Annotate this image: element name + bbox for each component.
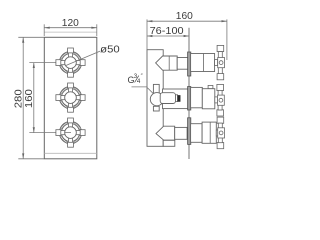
dim 160 ext line bottom (to handle 3)	[29, 132, 56, 134]
dim 76-100	[147, 35, 189, 37]
wall/plate edge line	[188, 28, 190, 159]
short ext segment inside handle 3	[65, 132, 71, 134]
svg-text:76-100: 76-100	[150, 26, 184, 37]
row2 cartridge	[160, 93, 175, 104]
plate bar row2	[188, 87, 191, 111]
row2 knob body	[202, 89, 215, 109]
handle H2	[56, 83, 85, 112]
row2 stem bottom	[153, 106, 159, 111]
row2 side handle	[217, 84, 224, 116]
row3 side handle	[217, 117, 224, 149]
row2 stem top	[153, 84, 159, 93]
row1 side handle	[217, 45, 224, 79]
svg-text:280: 280	[14, 89, 25, 108]
svg-text:″: ″	[141, 73, 143, 79]
bracket body	[147, 50, 163, 147]
row3 connector	[216, 130, 218, 136]
row1 cartridge pentagon	[156, 56, 178, 70]
bracket foot	[163, 140, 175, 146]
leader o50	[65, 51, 100, 66]
row3 cap	[191, 124, 203, 143]
faint body edge bottom	[44, 152, 97, 154]
row1 cap	[191, 54, 215, 72]
svg-text:ø50: ø50	[100, 44, 120, 56]
wall plate	[44, 37, 97, 159]
row2 connector	[215, 97, 218, 103]
faint body edge top	[44, 31, 97, 33]
row2 step	[176, 95, 178, 102]
dim 280	[18, 37, 44, 159]
dim 160 ext line top (to handle 1)	[29, 62, 56, 64]
row2 housing	[163, 89, 189, 109]
svg-text:160: 160	[176, 11, 193, 22]
plate bar row1	[188, 52, 191, 76]
row2 cap	[191, 87, 203, 107]
handle H3	[56, 118, 85, 147]
plate bar row3	[188, 118, 191, 145]
row1 connector	[215, 60, 218, 66]
svg-text:120: 120	[62, 18, 79, 29]
row3 cartridge pentagon	[156, 126, 175, 140]
dim 160 right view	[147, 19, 227, 60]
leader G3/4	[132, 87, 154, 94]
handle H1	[56, 48, 85, 77]
row3 collar	[175, 127, 187, 139]
dim 120	[44, 24, 97, 36]
row2 dark end	[178, 95, 181, 101]
dim 160 line	[33, 63, 35, 133]
svg-text:160: 160	[24, 89, 35, 108]
row2 check valve circle	[150, 93, 163, 106]
row3 body	[202, 122, 216, 143]
row2 knob tab	[208, 85, 213, 88]
row1 collar	[177, 58, 188, 70]
